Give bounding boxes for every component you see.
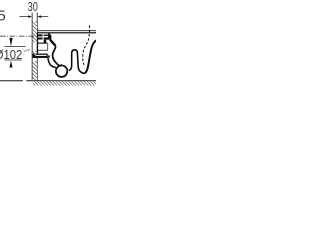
- elbow leg to bowl: [50, 40, 55, 46]
- junction tick: [60, 64, 62, 66]
- drain stub bottom wall: [37, 49, 48, 52]
- rim lower line (ceramic top): [37, 32, 96, 34]
- trap outlet channel: [69, 50, 84, 74]
- down arrow: [9, 38, 12, 46]
- floor hatching: [33, 81, 96, 85]
- svg-text:Ø102: Ø102: [0, 47, 22, 62]
- up arrow: [9, 61, 12, 68]
- Ø102 upper extension line: [4, 46, 25, 48]
- extension line / wall left edge: [31, 13, 33, 80]
- flush pipe walls (black): [38, 34, 43, 36]
- rim top line (seat): [37, 30, 96, 32]
- pipe break marks: [24, 50, 27, 52]
- bowl channel inner wall: [53, 46, 60, 66]
- drain stub right edge: [47, 44, 49, 51]
- trap bend circle: [56, 65, 68, 77]
- floor line left segment: [0, 80, 23, 82]
- drain stub top wall: [37, 43, 47, 44]
- svg-text:5: 5: [0, 8, 6, 25]
- svg-text:30: 30: [28, 0, 38, 14]
- Ø102 lower extension line: [5, 59, 22, 61]
- extension line / wall right edge: [36, 13, 38, 81]
- floor line: [26, 80, 96, 82]
- wall hatching: [33, 21, 37, 43]
- dimension line right with arrow: [41, 16, 49, 18]
- dimension line left with arrow: [19, 15, 48, 18]
- wall face dark segment: [37, 33, 39, 53]
- mounting bar (black): [33, 54, 48, 58]
- hidden trap outline (dashed): [83, 25, 90, 65]
- flush elbow body: [44, 35, 52, 40]
- flush pipe axis (dash-dot): [0, 35, 37, 37]
- bowl front underside: [84, 40, 96, 73]
- bowl outer shell: [48, 58, 56, 68]
